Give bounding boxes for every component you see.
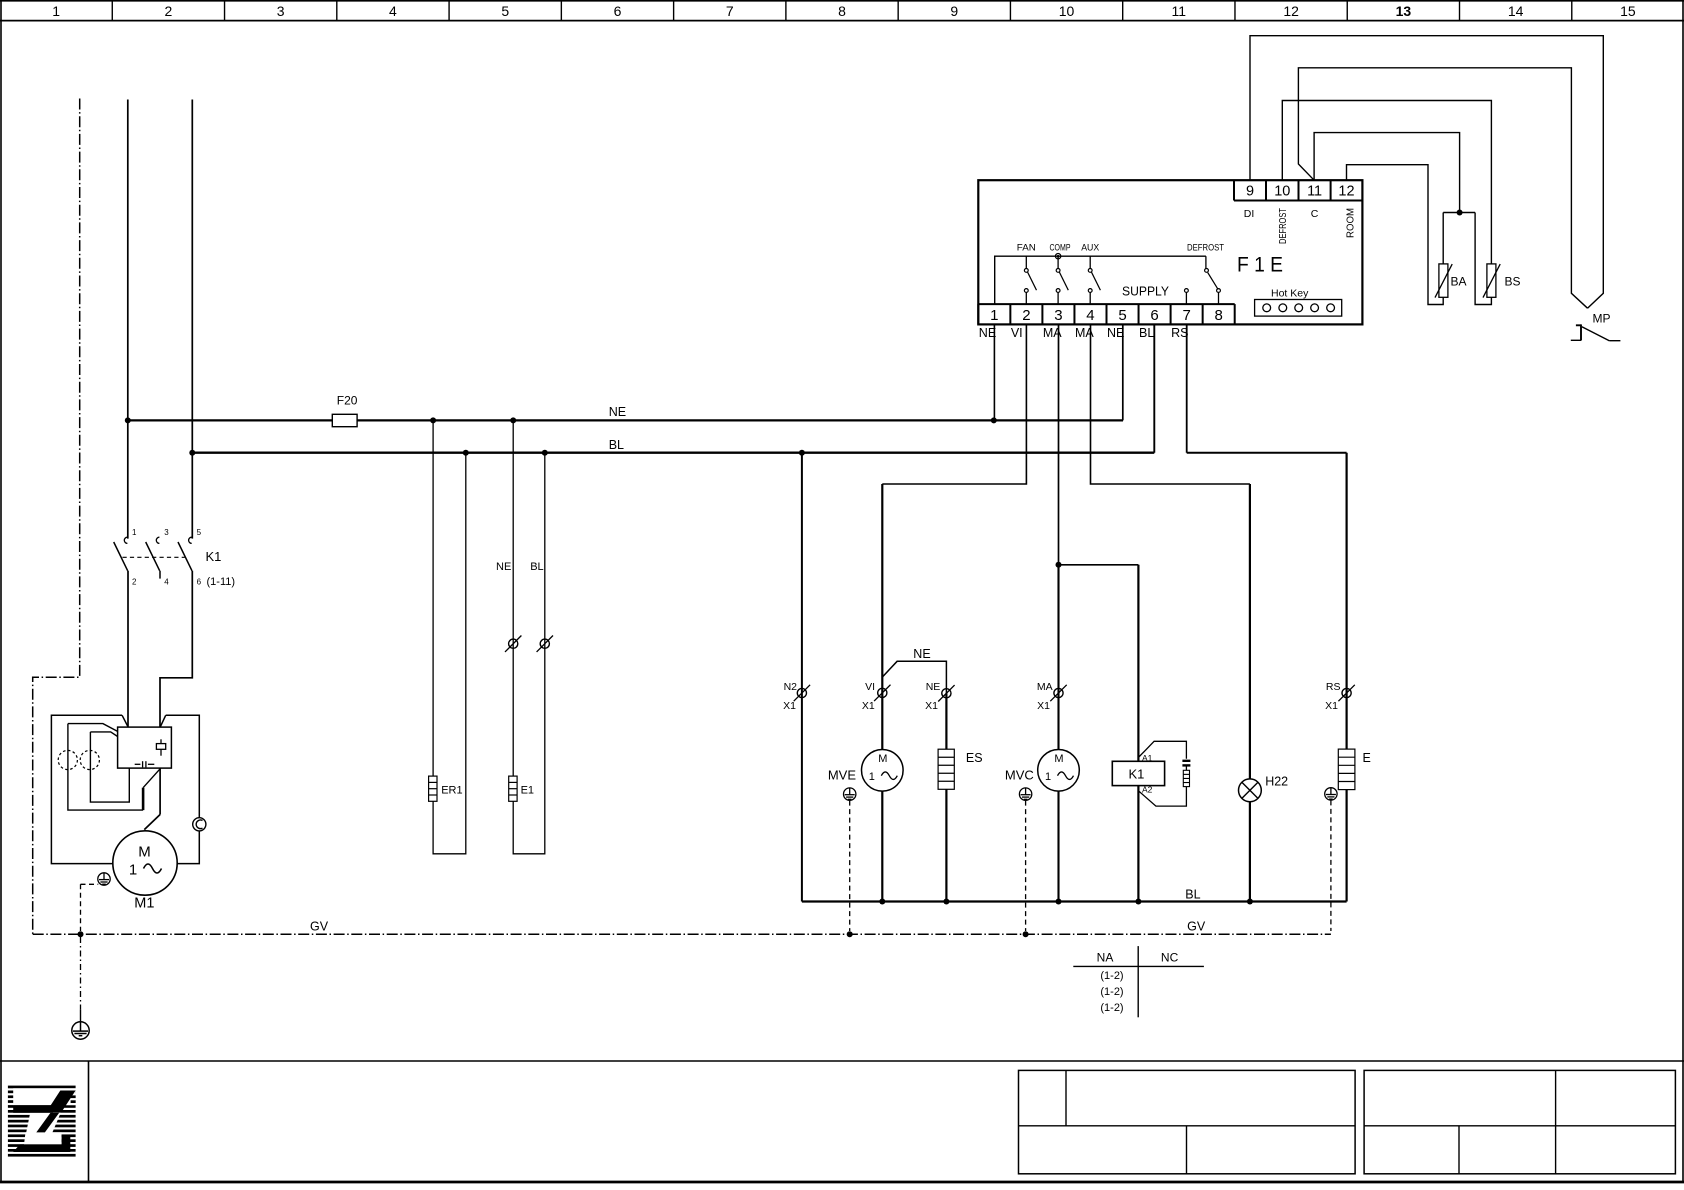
svg-text:6: 6 (197, 578, 202, 587)
svg-text:MVE: MVE (828, 768, 857, 783)
svg-text:E1: E1 (521, 785, 534, 797)
svg-text:11: 11 (1172, 3, 1187, 19)
svg-text:NE: NE (496, 561, 511, 573)
svg-text:AUX: AUX (1081, 243, 1100, 254)
svg-text:BS: BS (1505, 275, 1521, 289)
band separator (0, 1060, 1684, 1062)
connector N2-X1 (797, 688, 806, 697)
svg-text:10: 10 (1274, 183, 1290, 199)
connector MA-X1 (1054, 688, 1063, 697)
svg-text:15: 15 (1620, 3, 1636, 19)
wire T11-C (1314, 133, 1460, 213)
overload protector (156, 744, 165, 750)
svg-text:1: 1 (52, 3, 60, 19)
svg-text:X1: X1 (1325, 700, 1338, 712)
svg-text:8: 8 (838, 3, 846, 19)
svg-text:NE: NE (609, 405, 626, 419)
svg-text:3: 3 (1054, 307, 1062, 324)
terminals 9-12 (1233, 180, 1235, 200)
svg-text:12: 12 (1338, 183, 1354, 199)
wire N2 column (801, 453, 803, 902)
svg-text:1: 1 (990, 307, 998, 324)
earth MVC (1019, 788, 1031, 800)
svg-text:4: 4 (164, 578, 169, 587)
winding terminal posts (58, 750, 77, 769)
svg-text:A1: A1 (1142, 753, 1153, 763)
heater E (1338, 749, 1355, 790)
coil K1 (1112, 761, 1164, 785)
svg-text:NE: NE (979, 326, 996, 340)
terminals 1-8 (977, 304, 979, 324)
fuse F20 (332, 414, 357, 426)
svg-text:FAN: FAN (1017, 243, 1036, 254)
svg-text:E: E (1363, 751, 1371, 765)
svg-text:12: 12 (1283, 3, 1299, 19)
wire T4-H22 (1091, 324, 1250, 484)
capacitor snubber (1182, 760, 1190, 762)
page bottom line (0, 1181, 1684, 1184)
svg-text:NA: NA (1097, 951, 1114, 965)
wire K1 pole3 jog to compressor (160, 571, 192, 727)
relay contact COMP (1057, 256, 1059, 268)
wire T12-BA (1347, 165, 1444, 305)
svg-text:1: 1 (1045, 771, 1051, 783)
thermal protector (193, 818, 206, 831)
svg-text:3: 3 (164, 528, 169, 537)
svg-text:4: 4 (1086, 307, 1094, 324)
svg-text:4: 4 (389, 3, 397, 19)
svg-text:VI: VI (1011, 326, 1023, 340)
svg-text:(1-2): (1-2) (1100, 1002, 1123, 1014)
table NA/NC (1137, 946, 1139, 1017)
wire winding U inner (90, 768, 129, 802)
wire T10-BS (1282, 101, 1491, 264)
svg-text:MVC: MVC (1005, 768, 1034, 783)
wire T6-BL (1153, 324, 1155, 452)
wire E column (1345, 790, 1347, 902)
svg-text:K1: K1 (206, 549, 222, 564)
wire NE jog (882, 661, 946, 693)
svg-text:1: 1 (129, 862, 137, 879)
svg-text:ER1: ER1 (441, 785, 462, 797)
resistor E1 branch (512, 420, 514, 776)
svg-text:M1: M1 (134, 896, 154, 912)
svg-text:COMP: COMP (1050, 243, 1071, 254)
svg-text:BL: BL (609, 438, 624, 452)
svg-text:(1-2): (1-2) (1100, 986, 1123, 998)
svg-text:1: 1 (869, 771, 875, 783)
svg-text:BL: BL (1139, 326, 1154, 340)
relay contact AUX (1089, 256, 1091, 268)
compressor housing (51, 715, 199, 863)
svg-text:H22: H22 (1265, 775, 1288, 789)
svg-text:5: 5 (501, 3, 509, 19)
svg-text:Hot Key: Hot Key (1271, 287, 1309, 299)
wire E earth drop (1330, 800, 1332, 931)
svg-text:(1-2): (1-2) (1100, 970, 1123, 982)
wire T3-MA (1058, 324, 1060, 564)
svg-text:14: 14 (1508, 3, 1524, 19)
svg-text:BL: BL (530, 561, 543, 573)
svg-text:M: M (138, 844, 151, 861)
wire T11-MP jog (1298, 68, 1587, 308)
svg-text:9: 9 (950, 3, 958, 19)
svg-text:X1: X1 (783, 700, 796, 712)
svg-text:RS: RS (1326, 681, 1341, 693)
svg-text:M: M (1054, 753, 1063, 765)
wire BA-BS common (1442, 213, 1444, 264)
wire snubber bottom (1138, 787, 1186, 807)
svg-text:DEFROST: DEFROST (1187, 243, 1224, 254)
svg-text:C: C (1311, 208, 1319, 220)
logo (8, 1086, 76, 1157)
svg-text:BA: BA (1451, 275, 1467, 289)
wire T2-VI (882, 324, 1026, 484)
svg-text:N2: N2 (784, 681, 798, 693)
wire GV bus dash-dot (33, 933, 1331, 935)
svg-text:8: 8 (1215, 307, 1223, 324)
wire K1 pole1 to compressor (127, 571, 129, 727)
svg-text:2: 2 (1022, 307, 1030, 324)
svg-text:GV: GV (310, 920, 329, 934)
svg-text:2: 2 (165, 3, 173, 19)
title block right (1364, 1070, 1675, 1173)
motor MVE (862, 750, 904, 792)
svg-text:F20: F20 (337, 394, 358, 408)
ruler grid (0, 20, 1684, 22)
motor MVC (1038, 750, 1080, 792)
svg-text:ROOM: ROOM (1345, 208, 1357, 238)
PTC starter contact (135, 763, 141, 765)
svg-text:NC: NC (1161, 951, 1179, 965)
svg-text:K1: K1 (1129, 767, 1145, 782)
wire start winding 1 (68, 724, 118, 732)
svg-text:MP: MP (1593, 312, 1611, 326)
resistor ER1 branch (432, 420, 434, 776)
wire NE column (945, 693, 947, 749)
svg-text:13: 13 (1396, 3, 1412, 19)
svg-text:X1: X1 (862, 700, 875, 712)
svg-text:MA: MA (1043, 326, 1062, 340)
svg-text:VI: VI (865, 681, 875, 693)
logo cell (88, 1061, 90, 1182)
svg-text:MA: MA (1037, 681, 1053, 693)
svg-text:1: 1 (132, 528, 137, 537)
title block left (1019, 1070, 1356, 1173)
wire MVE earth drop (849, 801, 851, 931)
svg-text:ES: ES (966, 751, 983, 765)
svg-text:X1: X1 (1037, 700, 1050, 712)
wire ground feeder dash-dot (33, 99, 80, 935)
controller F1E box (978, 180, 1362, 324)
svg-text:6: 6 (614, 3, 622, 19)
wire K1 coil branch (1059, 564, 1139, 566)
svg-text:7: 7 (1182, 307, 1190, 324)
wire NE bus (128, 419, 1123, 421)
earth MVE (844, 788, 856, 800)
svg-text:5: 5 (197, 528, 202, 537)
relay contact DEFROST (1205, 256, 1207, 268)
border frame (0, 0, 2, 1182)
earth main (72, 1022, 89, 1039)
wire L feed (127, 100, 129, 539)
connector NE-X1 (942, 689, 951, 698)
relay contact FAN (1025, 256, 1027, 268)
connector RS-X1 (1342, 688, 1351, 697)
svg-text:X1: X1 (925, 700, 938, 712)
svg-text:11: 11 (1307, 183, 1322, 199)
wire T7-RS (1186, 324, 1188, 452)
svg-text:NE: NE (926, 681, 941, 693)
svg-text:6: 6 (1150, 307, 1158, 324)
wire winding U outer (68, 766, 143, 810)
svg-text:NE: NE (1107, 326, 1124, 340)
relay box (118, 727, 172, 768)
resistor snubber (1183, 770, 1189, 786)
svg-text:7: 7 (726, 3, 734, 19)
lamp H22 (1239, 779, 1262, 802)
svg-text:(1-11): (1-11) (207, 576, 236, 588)
svg-text:MA: MA (1075, 326, 1094, 340)
wire T1-NE (993, 324, 995, 420)
wire earth drop left (80, 937, 82, 1010)
svg-text:DI: DI (1244, 208, 1255, 220)
svg-text:BL: BL (1185, 888, 1200, 902)
svg-text:SUPPLY: SUPPLY (1122, 285, 1170, 299)
wire start winding 2 (90, 732, 117, 737)
svg-text:GV: GV (1187, 920, 1206, 934)
wire T9-MP (1250, 36, 1603, 309)
svg-text:9: 9 (1246, 183, 1254, 199)
wire T5-NE (1122, 324, 1124, 420)
wire F1E internal supply (995, 256, 1206, 304)
svg-text:5: 5 (1118, 307, 1126, 324)
wire BL bus (192, 452, 1154, 454)
wire BL bottom bus (802, 900, 1347, 902)
wire N feed (191, 100, 193, 539)
earth E (1325, 788, 1337, 800)
svg-text:F 1 E: F 1 E (1237, 254, 1283, 277)
wire M1 earth drop (81, 883, 99, 885)
heater ES (938, 749, 954, 789)
thermistor BS (1487, 264, 1496, 297)
svg-text:3: 3 (277, 3, 285, 19)
svg-text:M: M (878, 753, 887, 765)
svg-text:10: 10 (1059, 3, 1075, 19)
earth M1 (98, 873, 110, 885)
wire relay to motor (159, 768, 161, 814)
svg-text:DEFROST: DEFROST (1277, 208, 1289, 244)
svg-text:A2: A2 (1142, 785, 1153, 795)
connector VI-X1 (878, 688, 887, 697)
motor M1 (113, 831, 177, 895)
contactor K1 (124, 537, 127, 543)
wire snubber top (1138, 741, 1186, 759)
wire MVC earth drop (1025, 801, 1027, 931)
svg-text:2: 2 (132, 578, 137, 587)
thermistor BA (1439, 264, 1448, 297)
svg-text:NE: NE (913, 647, 930, 661)
